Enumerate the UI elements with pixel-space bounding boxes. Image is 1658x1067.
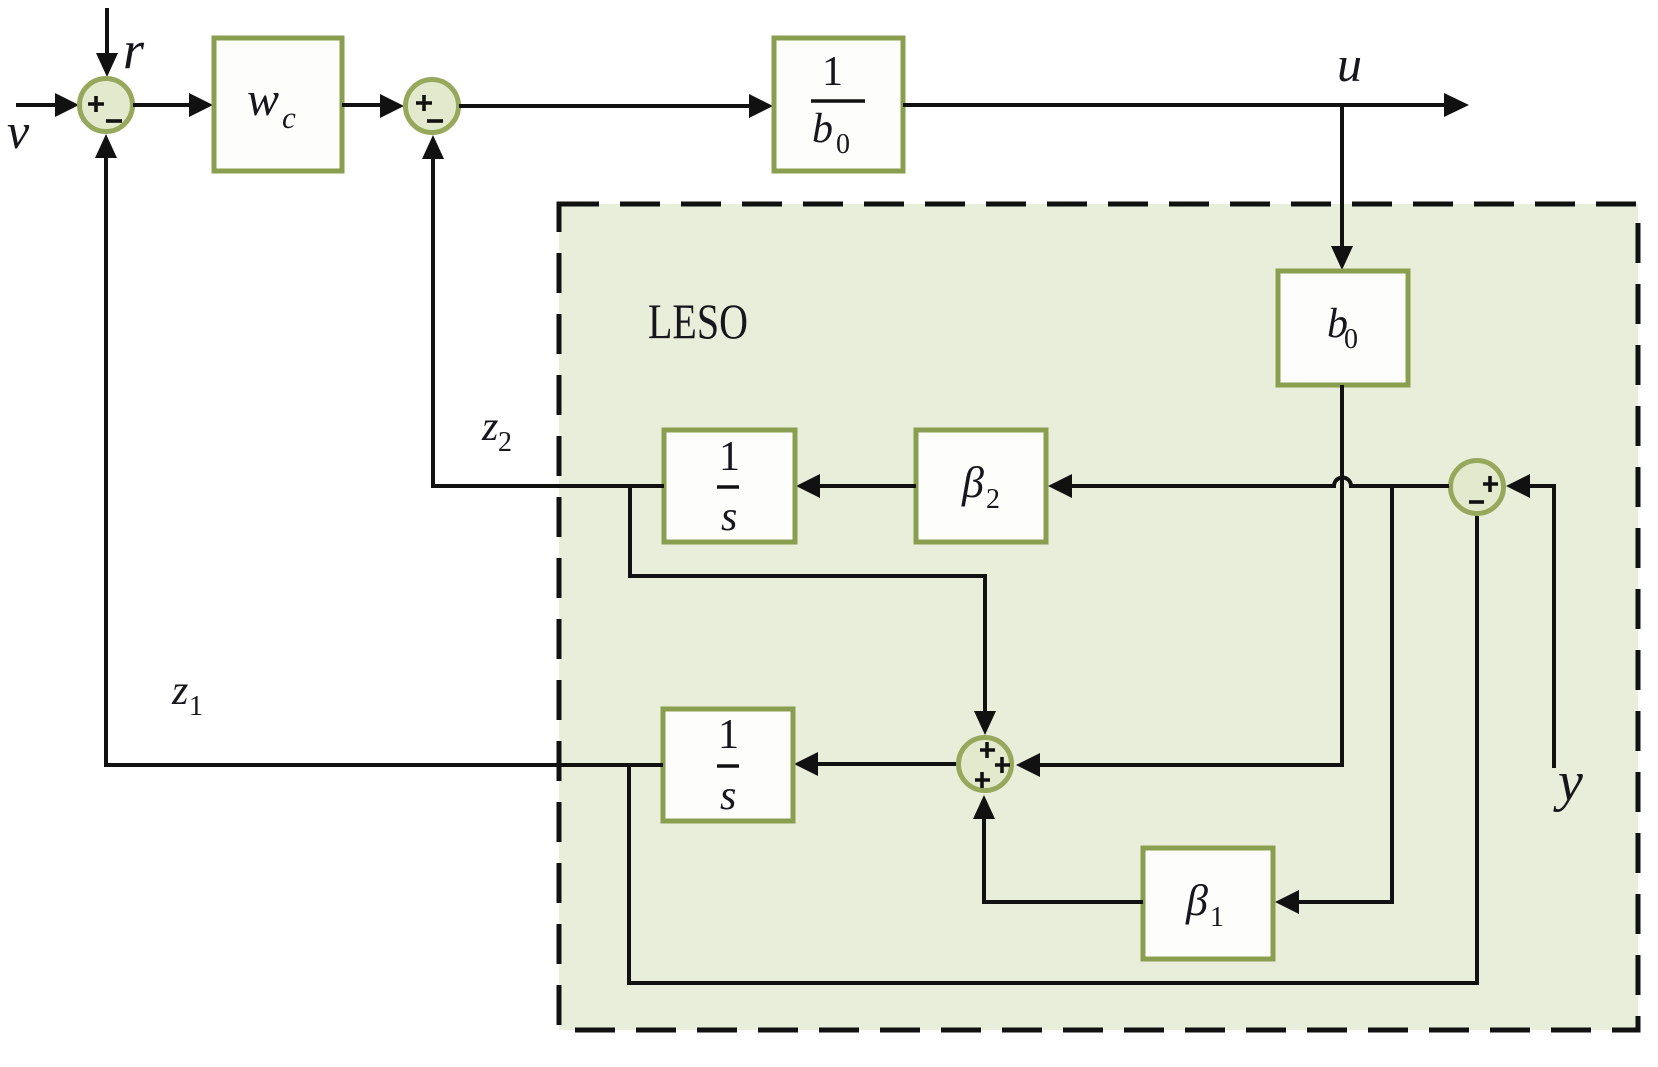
svg-text:1: 1 <box>822 49 843 95</box>
svg-text:b: b <box>812 106 833 152</box>
wire S2 to 1/b0 <box>459 94 773 118</box>
svg-text:v: v <box>7 103 30 159</box>
svg-text:c: c <box>282 100 296 135</box>
block B1 <box>1143 848 1273 959</box>
block B2 <box>916 430 1046 542</box>
svg-text:s: s <box>720 773 736 819</box>
svg-text:β: β <box>961 458 984 507</box>
wire z2 branch down into S3 <box>630 486 996 735</box>
svg-text:z: z <box>171 668 188 714</box>
node z2 label <box>481 404 512 458</box>
svg-text:1: 1 <box>719 434 740 480</box>
svg-text:u: u <box>1337 36 1362 92</box>
svg-text:2: 2 <box>498 427 512 458</box>
wire u branch down <box>1331 105 1353 270</box>
wire z1 feedback to S1 <box>95 134 663 765</box>
wire S4 output to B2 with hop <box>1048 474 1449 498</box>
wire S1 to Wc <box>133 93 213 117</box>
svg-text:1: 1 <box>1210 902 1224 933</box>
wire b0 down and into S3 <box>1016 385 1342 777</box>
svg-text:w: w <box>247 73 279 126</box>
svg-text:1: 1 <box>718 712 739 758</box>
svg-text:y: y <box>1553 751 1583 813</box>
summer S3 <box>959 738 1012 791</box>
wire z2 feedback to S2 <box>422 135 664 486</box>
wire S4 branch down to B1 <box>1275 486 1392 914</box>
block b0 <box>1278 271 1408 385</box>
node z1 label <box>171 668 203 722</box>
summer S4 <box>1451 461 1504 514</box>
wire S3 to integrator 1/s lower <box>794 752 956 776</box>
LESO dashed observer box <box>559 204 1638 1030</box>
svg-text:LESO: LESO <box>648 293 748 349</box>
block Wc <box>214 38 342 171</box>
wire Wc to S2 <box>342 94 404 118</box>
block 1/b0 <box>774 38 903 171</box>
block 1/s upper <box>664 430 795 542</box>
wire r input <box>96 8 118 77</box>
svg-text:s: s <box>721 494 737 540</box>
svg-text:2: 2 <box>986 484 1000 515</box>
wire B1 output into S3 <box>973 795 1143 902</box>
wire bottom feedback to S4 minus <box>629 516 1477 983</box>
summer S2 <box>406 80 459 133</box>
wire B2 to integrator 1/s upper <box>796 474 916 498</box>
svg-text:0: 0 <box>1344 324 1358 355</box>
wire v input <box>16 93 79 117</box>
wire 1/b0 to output u <box>903 93 1469 117</box>
wire y input into S4 <box>1506 474 1554 768</box>
svg-text:β: β <box>1185 876 1208 925</box>
svg-text:0: 0 <box>836 129 850 160</box>
svg-text:z: z <box>481 404 498 450</box>
svg-text:r: r <box>123 20 145 80</box>
svg-text:1: 1 <box>189 691 203 722</box>
block 1/s lower <box>663 709 793 821</box>
summer S1 <box>80 79 133 132</box>
